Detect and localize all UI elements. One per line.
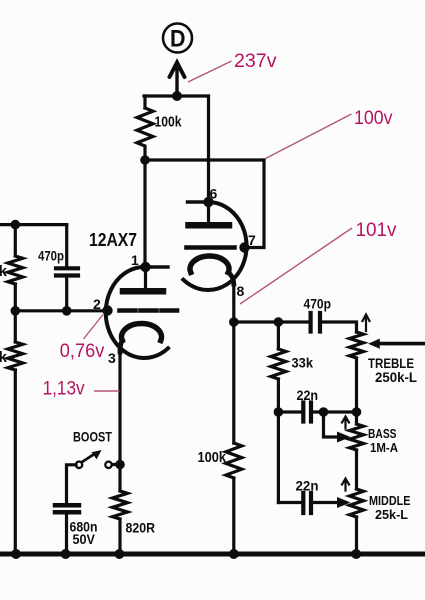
treble wiper arrowhead [368, 339, 380, 349]
ground dot left column [11, 549, 21, 559]
svg-text:6: 6 [210, 186, 218, 202]
pin 2 dot [102, 305, 112, 315]
wire 33k node down [277, 412, 280, 503]
junction dot grid node left [11, 306, 21, 316]
wire 33k bottom [277, 379, 280, 412]
capacitor 22n upper plates [303, 403, 311, 422]
callout line 100v [266, 114, 352, 159]
triode V1b envelope top stub [188, 200, 209, 203]
capacitor 470p tone plates [311, 313, 320, 332]
capacitor 470p plates [56, 268, 78, 275]
triode V1a cathode lead hook [120, 341, 122, 353]
wire 22n cap1 to bass top [313, 410, 357, 413]
svg-text:22n: 22n [297, 387, 319, 403]
wire treble bottom to bass top [355, 358, 358, 424]
wire plate node down to pin 1 [143, 160, 146, 267]
svg-text:33k: 33k [292, 355, 314, 371]
svg-text:100k: 100k [155, 114, 183, 131]
junction dot after 22n [319, 407, 329, 417]
svg-text:250k-L: 250k-L [375, 369, 417, 385]
wire left contact down [67, 465, 77, 503]
supply arrowhead [170, 63, 185, 78]
triode V1a grid dashes [120, 308, 178, 313]
resistor 33k [271, 349, 286, 379]
capacitor 22n lower plates [303, 493, 311, 513]
svg-text:22n: 22n [296, 478, 319, 494]
svg-text:1: 1 [131, 252, 139, 268]
bass wiper L wire [324, 412, 337, 437]
junction dot boost node [115, 460, 125, 470]
svg-text:2: 2 [93, 296, 101, 312]
resistor left upper (0k) [8, 256, 23, 284]
callout line 1,13v [94, 390, 120, 392]
resistor R 100k (plate load) [137, 96, 153, 160]
wire bass bottom to mid top [355, 450, 358, 489]
wire boost node to contact [112, 463, 120, 466]
triode V1b cathode lead hook [228, 272, 234, 284]
svg-text:D: D [170, 26, 186, 53]
wire 22n cap2 to mid wiper [313, 501, 336, 504]
wire 33k top [277, 322, 280, 349]
svg-text:0,76v: 0,76v [60, 341, 105, 362]
triode V1b cathode arc [190, 256, 229, 272]
svg-text:12AX7: 12AX7 [89, 230, 137, 250]
junction dot 33k top [274, 317, 284, 327]
switch left contact [76, 462, 82, 468]
ground dot 680n [61, 549, 71, 559]
callout line 0,76v [84, 315, 104, 340]
up arrow bass [342, 417, 349, 429]
callout line 101v [240, 228, 352, 304]
svg-text:470k: 470k [0, 263, 8, 280]
treble wiper wire [379, 342, 425, 346]
svg-text:1M-A: 1M-A [370, 440, 399, 455]
wire left column upper [14, 225, 17, 256]
potentiometer MIDDLE [350, 489, 364, 517]
triode V1a plate bar [123, 288, 163, 295]
svg-text:BASS: BASS [368, 426, 397, 441]
wire to 22n cap1 [278, 410, 301, 413]
triode V1a envelope top stub [146, 265, 169, 268]
svg-text:50V: 50V [73, 531, 96, 547]
triode V1a cathode arc [121, 323, 161, 340]
junction dot plate node [140, 155, 150, 165]
triode V1b plate bar [189, 222, 230, 229]
up arrow treble [363, 315, 370, 332]
potentiometer BASS [350, 424, 364, 450]
ground bus [0, 552, 425, 557]
wire boost node to 820R [118, 465, 121, 492]
svg-text:BOOST: BOOST [73, 430, 113, 445]
triode V1a envelope [106, 267, 168, 358]
resistor left lower (0k) [8, 342, 23, 370]
triode V1b grid dashes [187, 245, 235, 250]
wire input top left [0, 223, 67, 226]
ground dot middle pot [351, 549, 361, 559]
resistor 100k cathode follower [226, 443, 242, 478]
supply arrow shaft [175, 66, 178, 96]
wire cap to treble [322, 322, 357, 332]
wire cathode V1a down [118, 350, 121, 465]
junction dot input [11, 220, 21, 230]
svg-text:470p: 470p [38, 248, 64, 264]
svg-text:820R: 820R [126, 520, 156, 536]
switch right contact [105, 462, 111, 468]
junction dot bass top [352, 407, 362, 417]
capacitor 470p lead top [65, 225, 68, 267]
wire pin8 down [232, 322, 235, 443]
wire 820R to ground [118, 519, 121, 554]
wire plate node horizontal [144, 158, 264, 161]
ground dot 820R [114, 549, 124, 559]
svg-text:8: 8 [237, 283, 245, 299]
up arrow middle [342, 479, 349, 491]
wire left column lower [14, 370, 17, 554]
triode V1b envelope [183, 202, 246, 290]
terminal D circle [163, 24, 192, 53]
svg-text:237v: 237v [234, 51, 277, 72]
switch lever arrowhead [92, 450, 102, 459]
node B+ dot [172, 91, 182, 101]
wire plate node to grid pin 7 [246, 160, 264, 248]
capacitor 470p lead bottom [65, 278, 68, 311]
callout line 237v [188, 61, 232, 82]
bass wiper arrowhead [337, 432, 351, 443]
svg-text:101v: 101v [356, 220, 397, 241]
svg-text:470p: 470p [304, 296, 332, 312]
junction dot 22n node [274, 407, 284, 417]
capacitor 680n plates [55, 505, 79, 512]
wire pin8 node horizontal [234, 320, 308, 323]
triode V1a plate lead [144, 267, 147, 288]
svg-text:7: 7 [248, 232, 256, 248]
svg-text:100k: 100k [198, 449, 227, 466]
wire 680n to ground [65, 515, 68, 555]
mid wiper arrowhead [337, 497, 351, 508]
switch lever [82, 455, 94, 463]
wire 100k to ground [232, 478, 235, 554]
potentiometer TREBLE [350, 332, 364, 358]
pin 6 dot [203, 197, 213, 207]
wire B+ top [144, 94, 209, 97]
junction dot cap bottom [62, 306, 72, 316]
resistor 820R [113, 491, 128, 519]
svg-text:25k-L: 25k-L [375, 507, 408, 522]
pin 7 dot [239, 242, 249, 252]
svg-text:3: 3 [108, 350, 116, 366]
wire cathode V1b down [232, 281, 235, 322]
wire left column mid [14, 284, 17, 342]
svg-text:1,13v: 1,13v [43, 379, 85, 400]
junction dot pin8 node [229, 317, 239, 327]
svg-text:470k: 470k [0, 349, 8, 366]
wire mid bottom to ground [355, 517, 358, 554]
pin 1 dot [140, 262, 150, 272]
wire corner to 22n cap2 [278, 501, 301, 504]
svg-text:100v: 100v [354, 108, 393, 129]
triode V1b plate lead [207, 202, 210, 222]
svg-text:MIDDLE: MIDDLE [369, 493, 411, 508]
wire B+ down to pin 6 [207, 96, 210, 202]
wire grid node to pin 2 [15, 309, 107, 312]
ground dot 100k [229, 549, 239, 559]
